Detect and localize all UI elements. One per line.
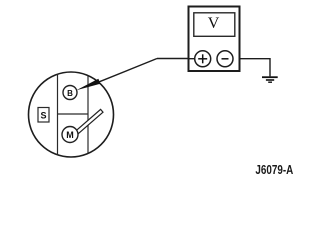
svg-text:M: M [66, 130, 74, 140]
svg-text:B: B [67, 89, 73, 98]
svg-text:V: V [208, 15, 220, 32]
svg-text:S: S [40, 110, 46, 120]
svg-text:J6079-A: J6079-A [255, 164, 293, 177]
